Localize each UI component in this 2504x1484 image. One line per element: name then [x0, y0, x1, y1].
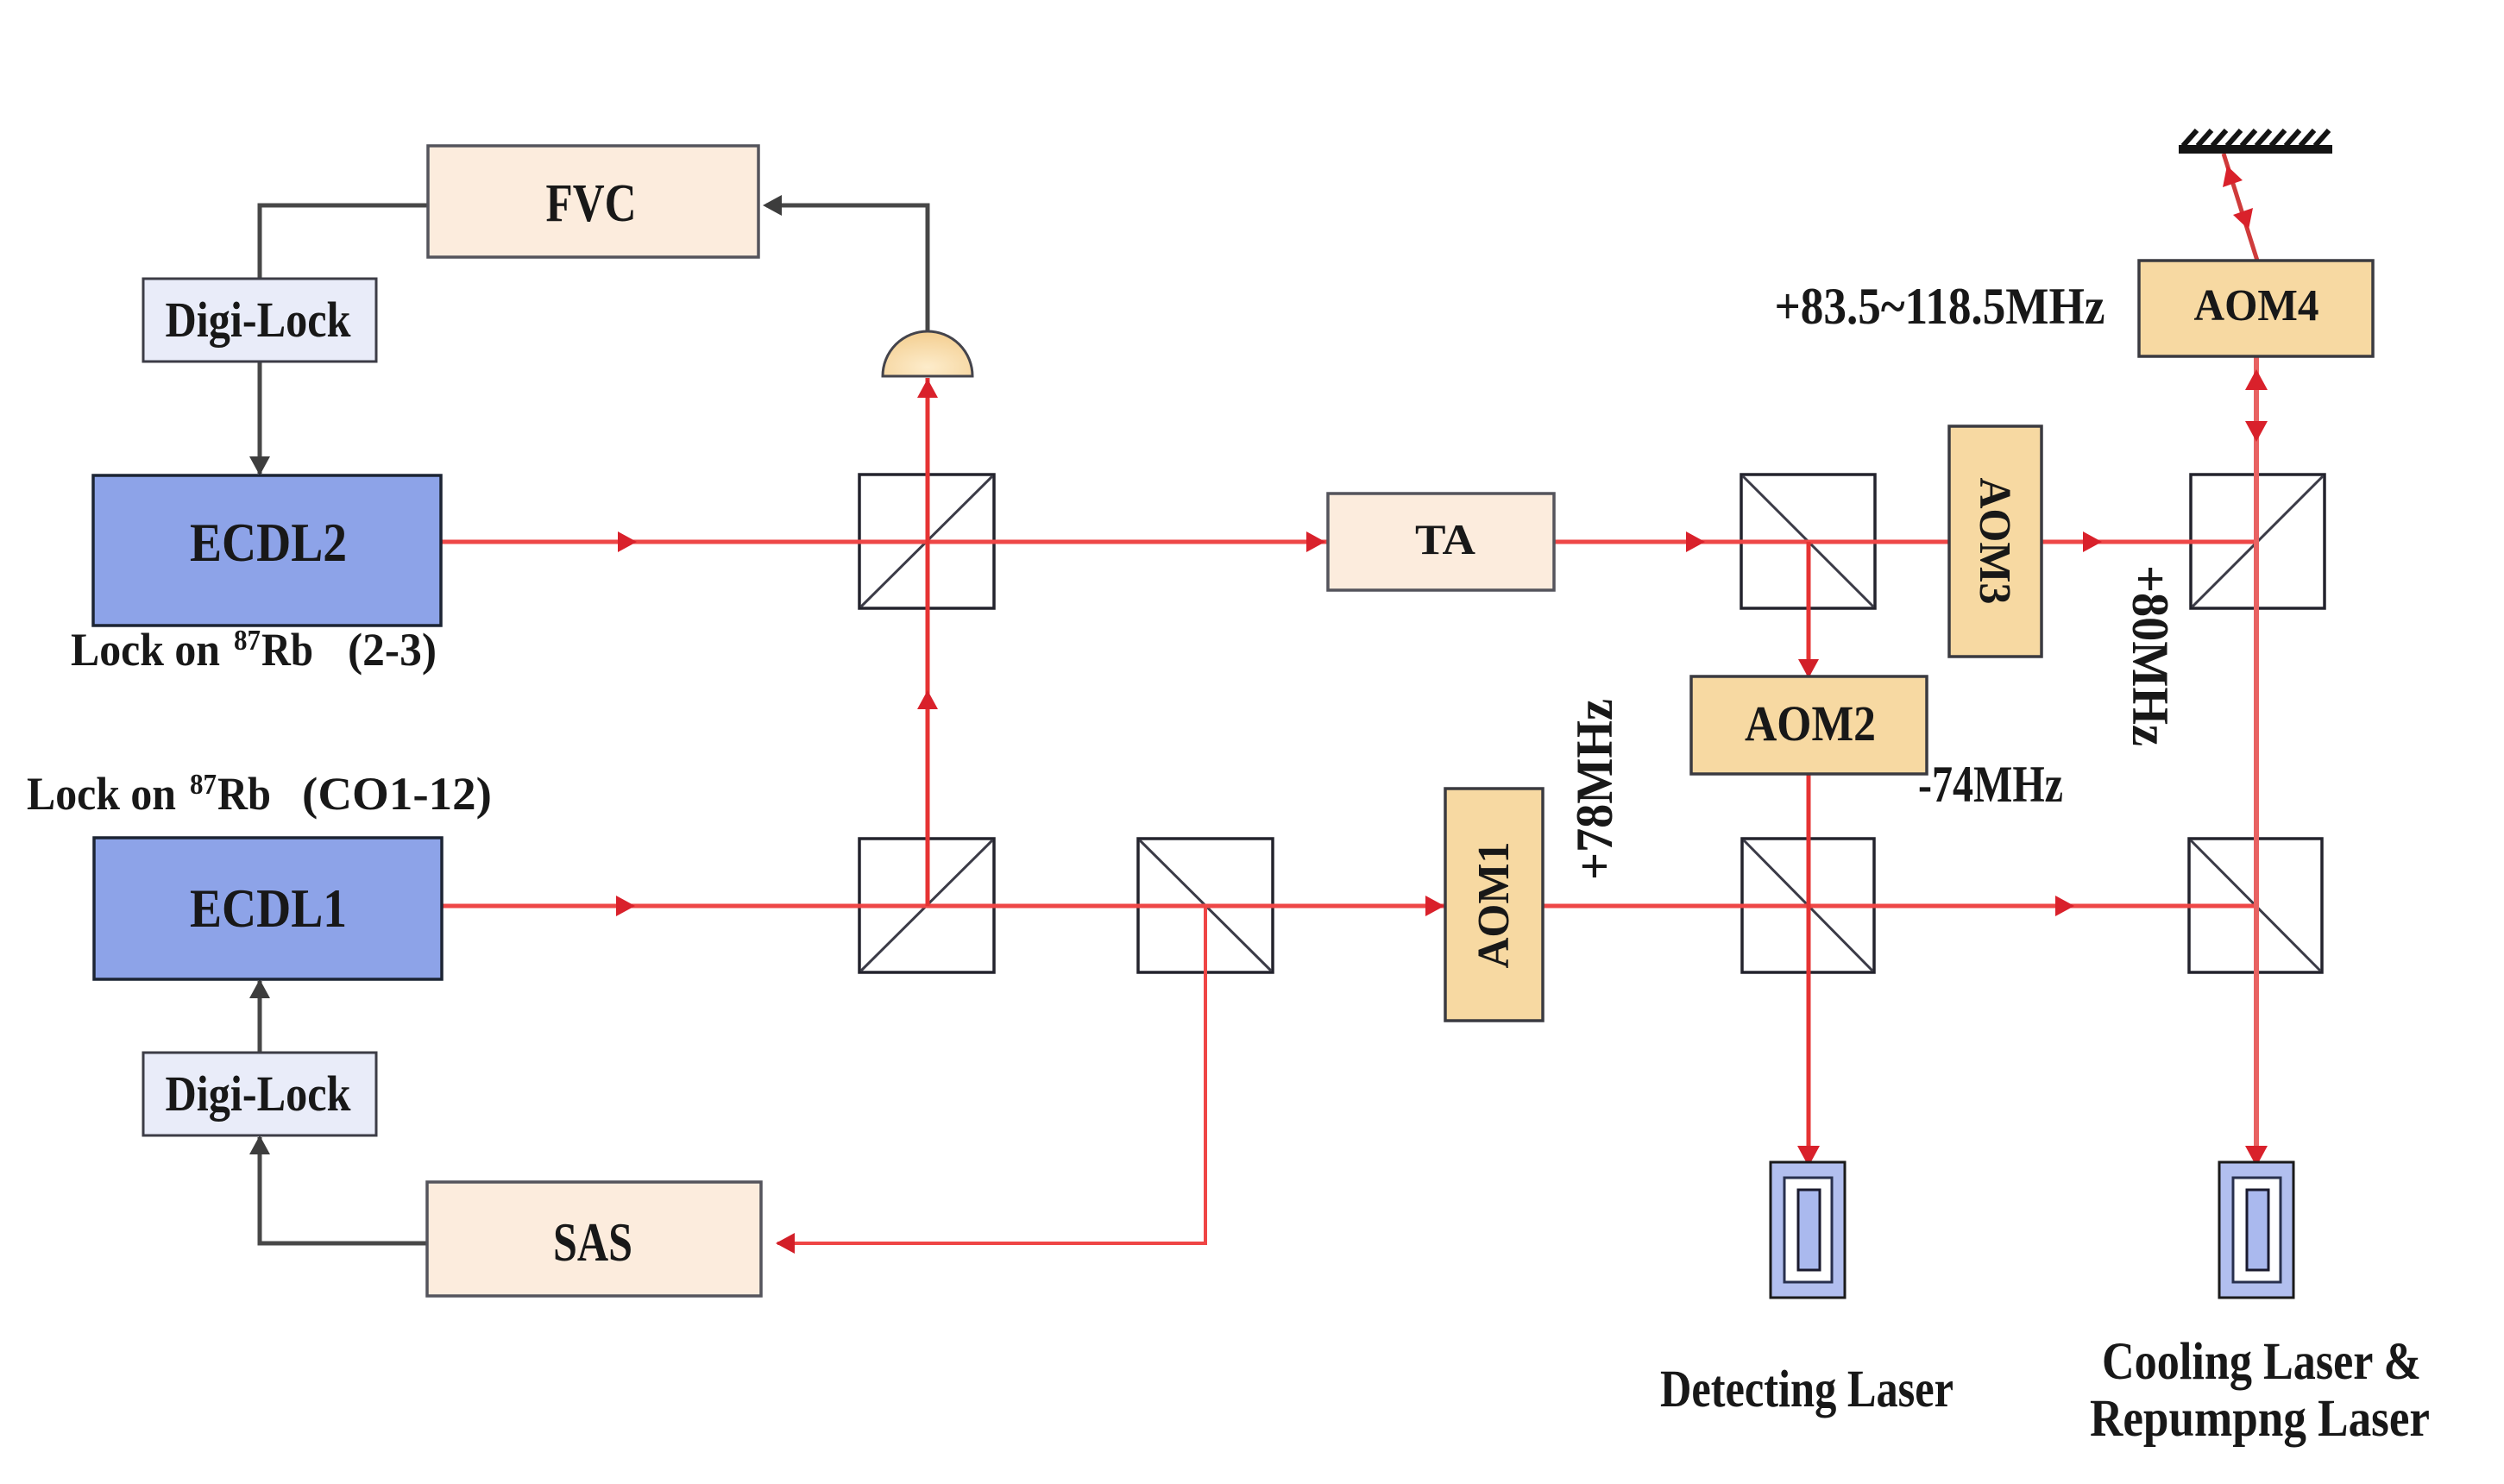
- arrowhead lower beam after ECDL1: [616, 896, 635, 916]
- svg-text:ECDL2: ECDL2: [190, 512, 347, 573]
- arrowhead into FVC: [763, 195, 782, 216]
- upper red beam ECDL2 to right PBS: [441, 540, 2257, 544]
- PBS cube D (lower left): [859, 839, 994, 972]
- box AOM3: [1949, 426, 2042, 657]
- PBS cube B (after TA): [1741, 475, 1875, 608]
- mirror bar: [2179, 145, 2332, 154]
- arrowhead up mid vertical beam: [917, 690, 938, 709]
- arrowhead upper beam after AOM3: [2083, 531, 2102, 552]
- arrowhead into SAS: [776, 1233, 795, 1254]
- wire Digi-Lock to ECDL2: [258, 362, 262, 474]
- double arrowheads between AOM4 and PBS-C: [2245, 369, 2268, 390]
- svg-text:Digi-Lock: Digi-Lock: [166, 1066, 352, 1122]
- box FVC: [428, 146, 758, 257]
- arrowhead into Digi-Lock2 bottom: [249, 1135, 270, 1154]
- box AOM4: [2139, 261, 2373, 356]
- box ECDL1: [94, 838, 442, 979]
- svg-text:Lock on: Lock on: [71, 624, 220, 676]
- box Digi-Lock (bottom): [143, 1053, 376, 1135]
- box ECDL2: [93, 475, 441, 626]
- svg-text:87: 87: [234, 625, 261, 657]
- svg-text:TA: TA: [1415, 515, 1475, 563]
- arrowhead lower beam before AOM1: [1425, 896, 1444, 916]
- vacuum cell Detecting: [1771, 1162, 1845, 1298]
- svg-text:AOM1: AOM1: [1469, 842, 1519, 969]
- svg-text:ECDL1: ECDL1: [190, 877, 347, 939]
- PBS cube A (upper left): [859, 475, 994, 608]
- wire photodetector to FVC: [766, 205, 928, 331]
- svg-text:Cooling Laser &: Cooling Laser &: [2102, 1333, 2421, 1391]
- box Digi-Lock (top): [143, 279, 376, 362]
- lower red beam ECDL1 to lower-right PBS: [441, 904, 2255, 909]
- svg-text:FVC: FVC: [546, 174, 637, 233]
- red beam PBS-B down to AOM2: [1807, 542, 1811, 676]
- PBS cube F (lower middle): [1742, 839, 1874, 972]
- red beam AOM2 down to Detecting cell: [1807, 774, 1811, 1164]
- arrowhead up into photodetector: [917, 379, 938, 398]
- diagonal red beam AOM4 to mirror: [2224, 154, 2257, 261]
- svg-text:SAS: SAS: [553, 1211, 632, 1273]
- label Lock on 87Rb (CO1-12): [27, 768, 492, 820]
- arrowhead upper beam after ECDL2: [618, 531, 637, 552]
- arrowhead upper beam after TA: [1686, 531, 1705, 552]
- PBS cube C (upper right): [2191, 475, 2325, 608]
- wire SAS to Digi-Lock2: [260, 1137, 427, 1243]
- svg-text:Rb: Rb: [261, 624, 313, 676]
- long vertical red beam AOM4 to Cooling cell: [2254, 356, 2259, 1164]
- svg-text:Lock on: Lock on: [27, 768, 176, 820]
- label Lock on 87Rb (2-3): [71, 624, 437, 676]
- svg-text:87: 87: [190, 769, 217, 801]
- svg-text:Detecting Laser: Detecting Laser: [1660, 1361, 1953, 1418]
- svg-text:Rb: Rb: [217, 768, 271, 820]
- svg-text:AOM4: AOM4: [2194, 281, 2319, 330]
- PBS cube G (lower right): [2189, 839, 2322, 972]
- wire Digi-Lock2 to ECDL1: [258, 981, 262, 1053]
- svg-text:Digi-Lock: Digi-Lock: [166, 292, 352, 348]
- box TA: [1328, 494, 1554, 590]
- arrowhead into Cooling cell: [2245, 1146, 2268, 1166]
- arrowhead lower beam before PBS-G: [2055, 896, 2074, 916]
- box SAS: [427, 1182, 761, 1296]
- svg-text:+83.5~118.5MHz: +83.5~118.5MHz: [1775, 278, 2105, 335]
- arrowhead toward AOM4: [2233, 208, 2253, 230]
- arrowhead toward mirror: [2223, 166, 2243, 187]
- arrowhead upper beam before TA: [1306, 531, 1325, 552]
- svg-text:-74MHz: -74MHz: [1918, 756, 2063, 813]
- svg-text:AOM2: AOM2: [1745, 695, 1876, 751]
- svg-text:AOM3: AOM3: [1970, 478, 2019, 605]
- svg-text:(CO1-12): (CO1-12): [302, 768, 492, 820]
- vertical red beam to photodetector: [926, 378, 930, 906]
- svg-text:+78MHz: +78MHz: [1566, 699, 1623, 880]
- arrowhead into Detecting cell: [1797, 1146, 1820, 1166]
- vacuum cell Cooling: [2219, 1162, 2293, 1298]
- arrowhead into ECDL2 top: [249, 456, 270, 475]
- PBS cube E (second lower): [1138, 839, 1273, 972]
- svg-text:+80MHz: +80MHz: [2122, 565, 2179, 746]
- box AOM2: [1691, 676, 1927, 774]
- mirror hatching: [2183, 130, 2329, 146]
- arrowhead into AOM2 top: [1798, 659, 1819, 678]
- photodetector dome: [883, 331, 972, 376]
- wire FVC to Digi-Lock (top): [260, 205, 428, 279]
- svg-text:(2-3): (2-3): [348, 624, 437, 676]
- red beam PBS-E down to SAS: [777, 906, 1205, 1243]
- box AOM1: [1445, 789, 1543, 1021]
- arrowhead into ECDL1 bottom: [249, 979, 270, 998]
- svg-text:Repumpng Laser: Repumpng Laser: [2090, 1390, 2430, 1448]
